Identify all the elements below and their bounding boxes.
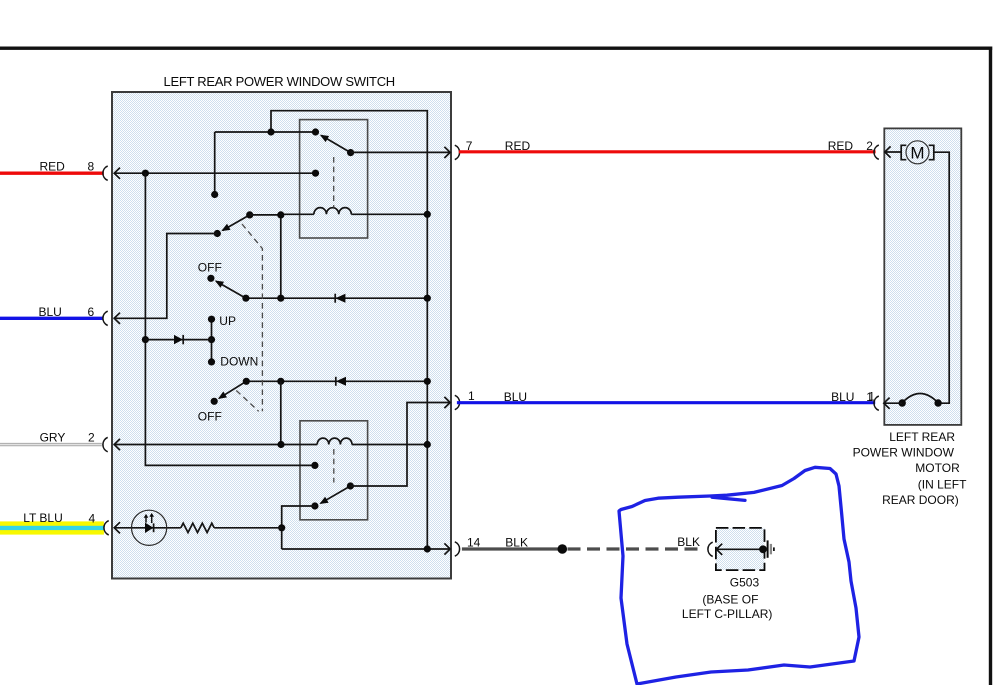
connector motor pin 1 (874, 396, 879, 410)
connector pin 8 (103, 166, 108, 180)
svg-text:G503: G503 (730, 576, 760, 590)
relay up common (347, 149, 354, 156)
wire BLK pin14 (solid) (462, 547, 562, 550)
connector pin 7 (455, 145, 460, 159)
svg-text:LEFT REAR: LEFT REAR (889, 430, 955, 444)
connector motor pin 2 (874, 145, 879, 159)
junction on RED row (142, 170, 149, 177)
diode (pointing left) (336, 377, 346, 386)
svg-text:RED: RED (505, 139, 531, 153)
svg-text:RED: RED (40, 159, 66, 173)
connector pin 6 (103, 311, 108, 325)
wire: pin 7 output row (351, 151, 451, 153)
contact (311, 502, 318, 509)
wire: lower OFF diode row (246, 380, 427, 382)
mechanical linkage (switch) (236, 224, 262, 411)
hand-drawn highlight around ground (619, 467, 859, 684)
contact stub end (211, 191, 218, 198)
junction on right bus (424, 295, 431, 302)
center node (208, 336, 215, 343)
wire: motor pin1 (884, 402, 902, 404)
junction (277, 378, 284, 385)
junction on right bus (424, 441, 431, 448)
connector pin 1 (455, 395, 460, 409)
svg-text:2: 2 (866, 139, 873, 153)
relay box (up winding) (300, 120, 368, 238)
pen overstroke (712, 497, 745, 500)
svg-text:LEFT REAR POWER WINDOW SWITCH: LEFT REAR POWER WINDOW SWITCH (164, 74, 395, 89)
OFF contact (211, 398, 218, 405)
wire RED pin7 to motor pin2 (459, 150, 876, 153)
motor assembly box (884, 128, 961, 425)
down-switch fixed contact (311, 462, 318, 469)
svg-text:GRY: GRY (40, 430, 66, 444)
wire: contact down to BLK row (282, 506, 315, 549)
linkage rod (relay up) (333, 157, 335, 208)
ground location box G503 (716, 528, 765, 570)
connector pin 14 (455, 542, 460, 556)
down-relay switch arm (321, 486, 351, 503)
junction on right bus (424, 211, 431, 218)
wire: pin2 GRY row through down coil (114, 444, 317, 446)
wire to ground point (716, 548, 763, 550)
wire: pin6 BLU row (114, 234, 217, 319)
svg-text:BLU: BLU (504, 390, 527, 404)
coil (down winding) (317, 438, 352, 444)
relay contact (RED row) (312, 170, 319, 177)
wire BLU pin1 to motor pin1 (457, 401, 875, 404)
svg-text:OFF: OFF (198, 261, 222, 275)
wire BLK dashed to ground (568, 547, 703, 550)
wire BLU (left, pin 6) (0, 317, 104, 320)
wire: diode row to selector (145, 339, 211, 341)
illumination LED (132, 510, 167, 545)
switch assembly box (112, 92, 451, 579)
lower OFF switch arm (219, 381, 246, 398)
OFF pivot (242, 295, 249, 302)
junction on jumper (267, 128, 274, 135)
svg-text:2: 2 (88, 430, 95, 444)
svg-text:LT BLU: LT BLU (23, 511, 63, 525)
svg-text:BLK: BLK (505, 536, 528, 550)
UP/DOWN selector contacts (211, 319, 213, 362)
svg-text:LEFT C-PILLAR): LEFT C-PILLAR) (682, 607, 772, 621)
wire: top jumper to right bus (215, 111, 428, 549)
svg-text:RED: RED (828, 139, 854, 153)
svg-text:(IN LEFT: (IN LEFT (918, 477, 967, 491)
junction on right bus (424, 378, 431, 385)
svg-text:BLU: BLU (831, 390, 854, 404)
connector pin 4 (104, 521, 109, 535)
svg-text:REAR DOOR): REAR DOOR) (882, 493, 959, 507)
arm pivot (246, 211, 253, 218)
linkage rod (relay down) (333, 449, 335, 483)
svg-text:BLK: BLK (677, 535, 700, 549)
junction right bus end (424, 545, 431, 552)
svg-text:UP: UP (219, 314, 236, 328)
splice junction (558, 544, 568, 554)
svg-text:6: 6 (88, 305, 95, 319)
diode (pointing right) (174, 335, 183, 344)
svg-text:4: 4 (89, 511, 96, 525)
OFF pivot (243, 378, 250, 385)
wire: upper OFF diode row (246, 297, 427, 299)
coil (up winding) (281, 213, 314, 215)
wire: pin8 RED row into relay contact (114, 172, 315, 174)
relay box (down winding) (300, 421, 368, 520)
junction (277, 211, 284, 218)
brush jumper arc (902, 394, 939, 404)
wire LT BLU (left, pin 4) (0, 521, 104, 534)
svg-text:MOTOR: MOTOR (915, 461, 960, 475)
svg-text:14: 14 (467, 535, 481, 549)
wire: motor loop (934, 152, 949, 403)
svg-text:1: 1 (868, 390, 875, 404)
wire: OFF row to down coil (280, 381, 282, 444)
wire RED (left, pin 8) (0, 171, 104, 174)
svg-text:M: M (910, 144, 924, 163)
arm contact (214, 230, 221, 237)
connector to ground (708, 542, 713, 556)
wire GRY (left, pin 2) (0, 443, 102, 446)
junction (277, 295, 284, 302)
junction (diode feed) (142, 336, 149, 343)
svg-text:8: 8 (88, 159, 95, 173)
OFF contact (207, 275, 214, 282)
junction (277, 441, 284, 448)
upper OFF switch arm (216, 281, 246, 298)
wire: left vertical bus to down-switch contact (145, 173, 315, 465)
master-switch arm (upper) (223, 215, 250, 231)
wire: common to pin 1 row (350, 403, 450, 487)
svg-text:DOWN: DOWN (220, 354, 258, 368)
resistor (181, 523, 214, 532)
DOWN contact (208, 358, 215, 365)
svg-text:OFF: OFF (198, 410, 222, 424)
junction (LT BLU row) (278, 524, 285, 531)
diode (pointing left) (335, 294, 345, 303)
wire: pivot to OFF row (250, 215, 281, 298)
svg-text:POWER WINDOW: POWER WINDOW (853, 446, 955, 460)
relay up switch arm (321, 135, 350, 152)
motor M1 (901, 145, 906, 159)
wire into motor (885, 151, 901, 153)
relay up contact A (312, 128, 319, 135)
wire: pin 14 BLK row (282, 548, 451, 550)
common (347, 482, 354, 489)
svg-text:BLU: BLU (39, 305, 62, 319)
ground G503 symbol (759, 545, 767, 553)
connector pin 2 (103, 437, 108, 451)
wire: pin4 LT BLU row with LED + resistor (114, 527, 181, 529)
svg-text:(BASE OF: (BASE OF (702, 592, 758, 606)
